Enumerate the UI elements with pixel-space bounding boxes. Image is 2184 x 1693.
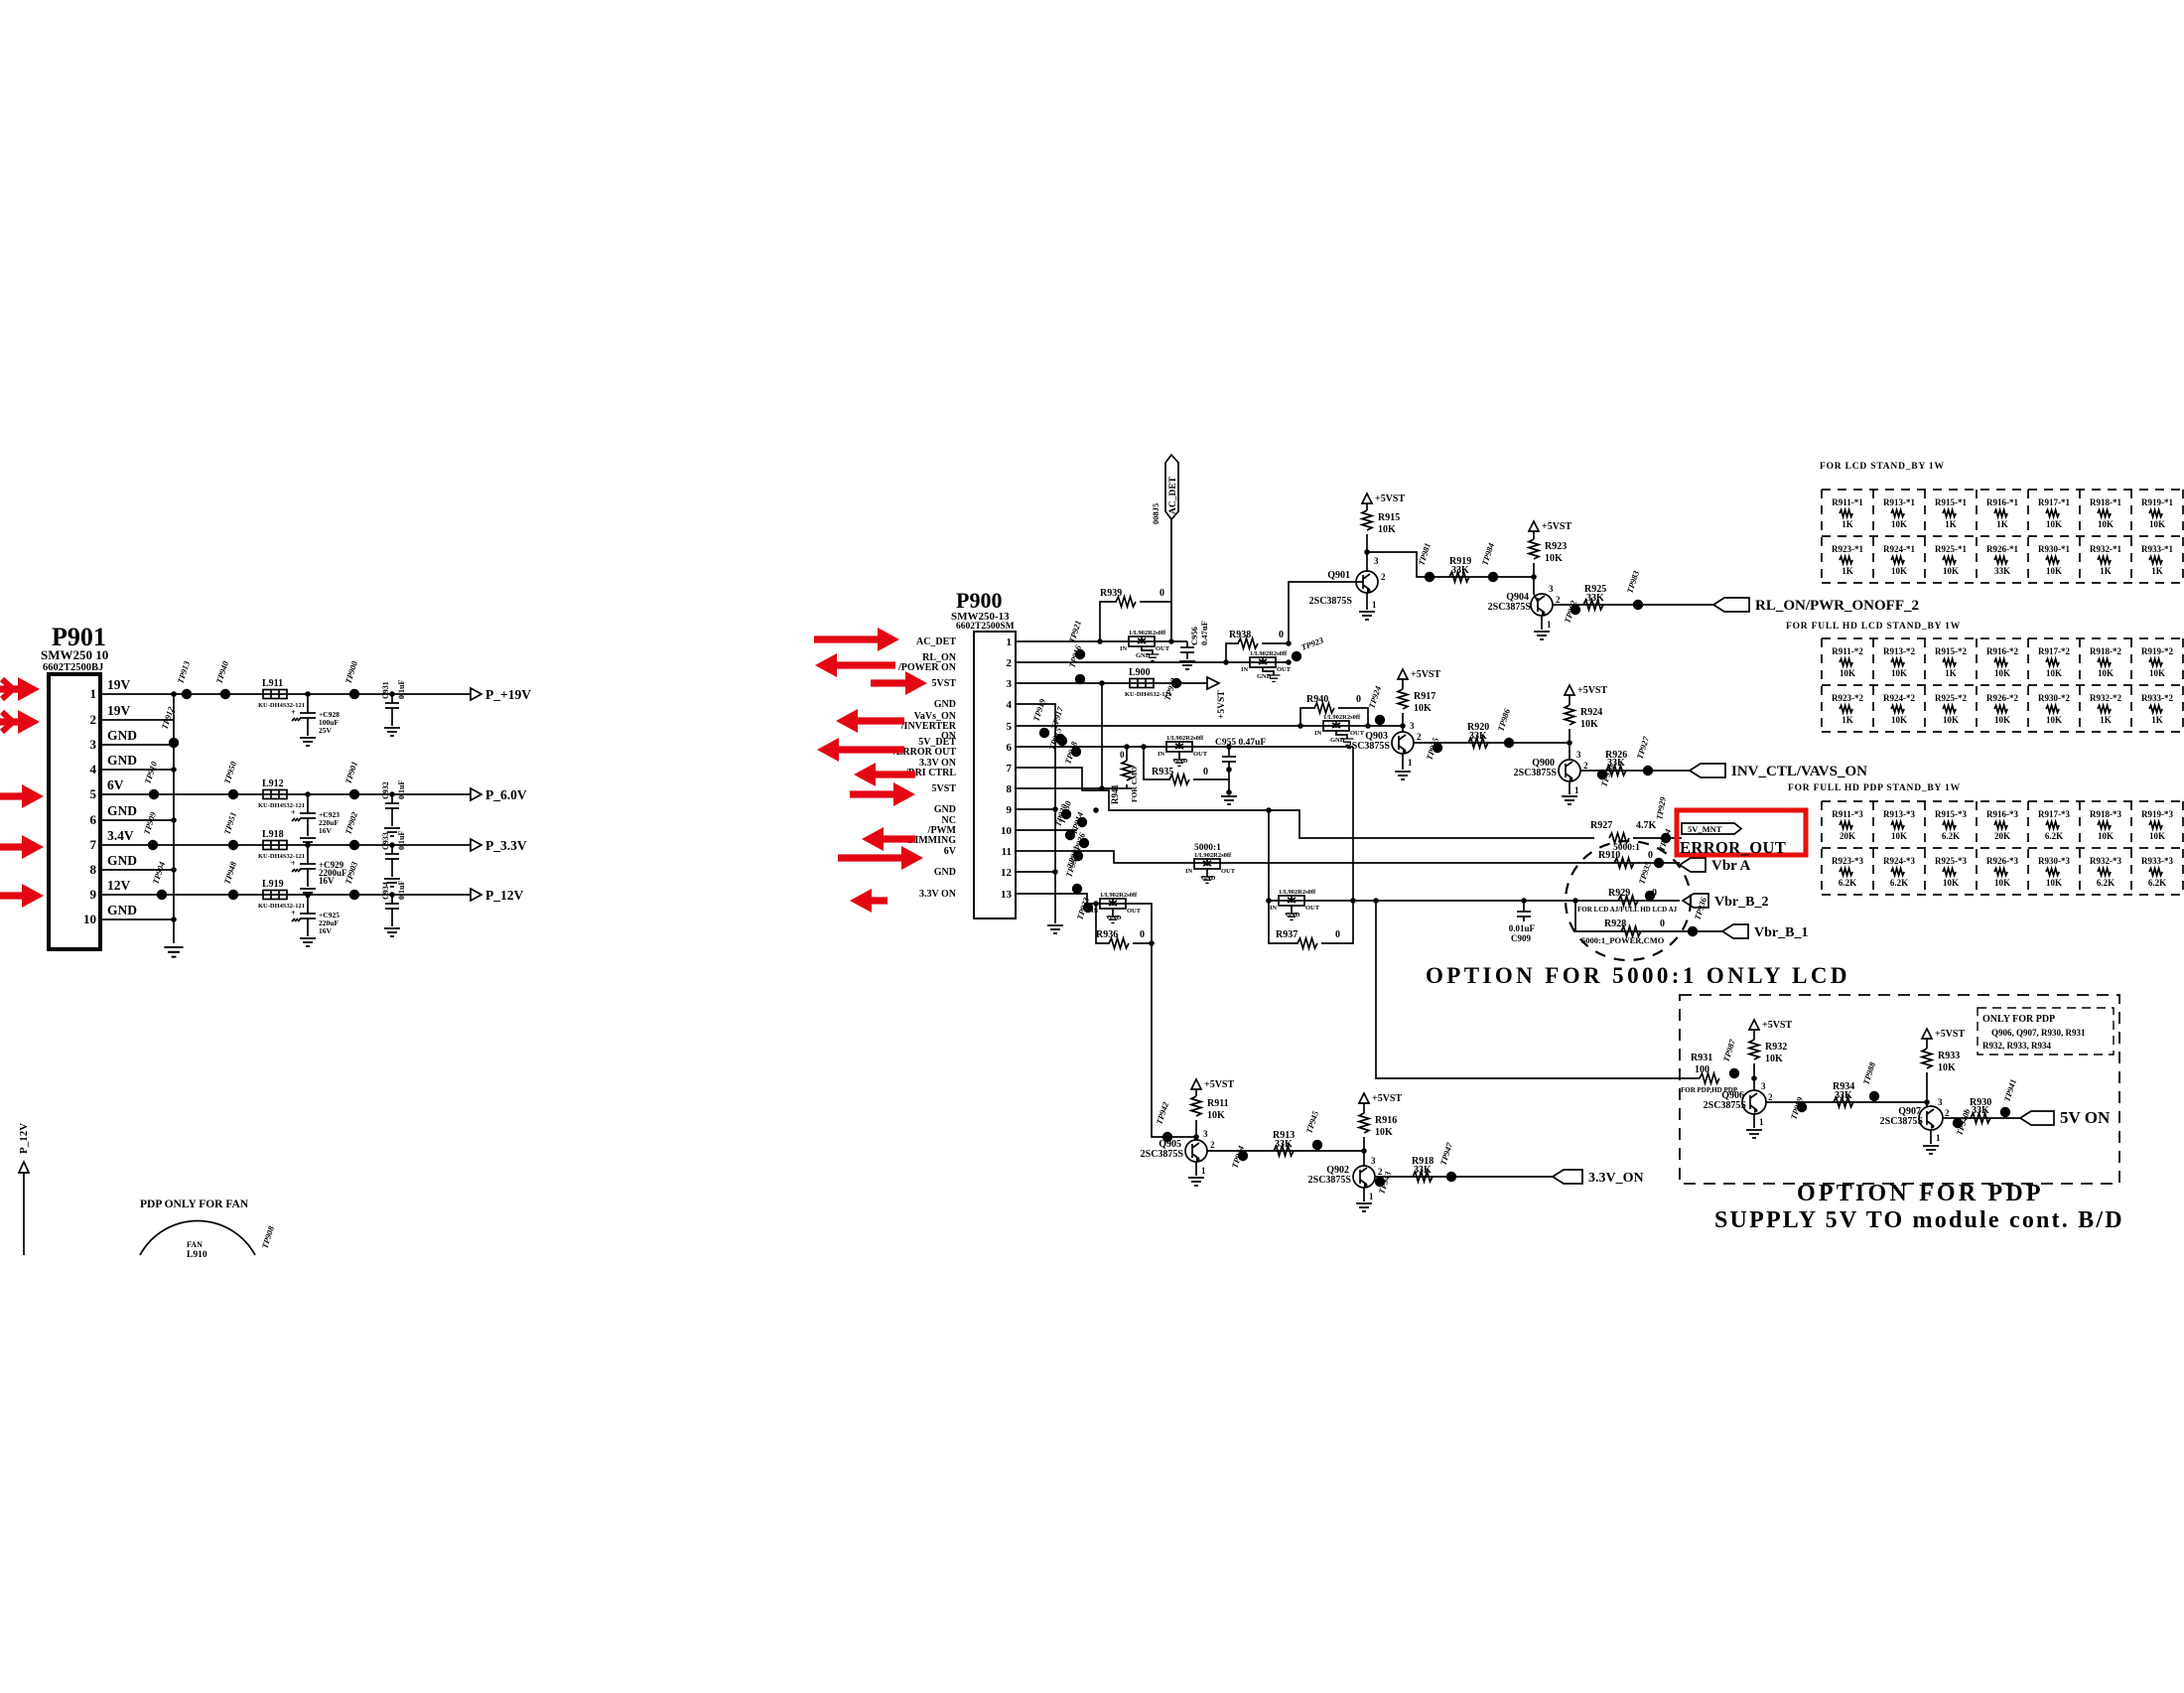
svg-text:KU-DH4S32-121: KU-DH4S32-121: [258, 802, 305, 809]
test point TP910: [142, 760, 159, 799]
svg-text:R918-*1: R918-*1: [2090, 497, 2121, 507]
svg-text:R932, R933, R934: R932, R933, R934: [1982, 1041, 2051, 1051]
dashed option box OPTION FOR PDP: [1680, 995, 2119, 1184]
junction Q907 base node: [1924, 1099, 1930, 1105]
test point TP987: [1720, 1038, 1739, 1078]
red annotation arrow into P901 pin 5: [0, 784, 44, 808]
junction: [1093, 901, 1099, 907]
svg-text:R932: R932: [1765, 1042, 1787, 1053]
svg-text:2SC3875S: 2SC3875S: [1309, 596, 1353, 607]
svg-text:/POWER ON: /POWER ON: [897, 662, 957, 673]
ground below Q903 emitter: [1395, 772, 1411, 779]
resistor R941 0 ohm: [1110, 747, 1139, 804]
resistor R915-*3 6.2K: [1935, 809, 1967, 841]
test point TP948: [221, 860, 238, 900]
svg-text:R924-*3: R924-*3: [1883, 856, 1915, 866]
svg-text:0.1uF: 0.1uF: [397, 881, 406, 900]
svg-text:PDP ONLY FOR FAN: PDP ONLY FOR FAN: [140, 1199, 249, 1210]
resistor R925-*3 10K: [1935, 856, 1967, 888]
wire P900 pin2 RL_ON: [1032, 661, 1289, 663]
svg-text:1K: 1K: [1945, 519, 1957, 529]
P900 pin 3: [1007, 678, 1033, 690]
svg-text:R929: R929: [1608, 888, 1630, 899]
red chevron behind pin2 arrow: [2, 712, 13, 732]
junction: [389, 842, 395, 848]
svg-text:R919-*2: R919-*2: [2141, 646, 2173, 656]
test point TP922: [1161, 676, 1181, 702]
junction: [1099, 785, 1105, 791]
P900 pin 6 net label: [892, 737, 956, 758]
svg-text:1: 1: [1369, 1192, 1374, 1201]
resistor R917 10K: [1398, 679, 1435, 732]
wire to +C928: [307, 694, 309, 713]
wire P901 pin8 to ground bus: [117, 869, 174, 871]
svg-text:C909: C909: [1511, 933, 1531, 943]
svg-text:GND: GND: [934, 699, 956, 710]
svg-text:OPTION FOR PDP: OPTION FOR PDP: [1797, 1181, 2044, 1206]
output triangle P_3.3V: [471, 839, 481, 851]
resistor R926-*2 10K: [1986, 693, 2018, 725]
svg-text:FOR LCD STAND_BY 1W: FOR LCD STAND_BY 1W: [1820, 462, 1945, 472]
svg-text:R933-*1: R933-*1: [2141, 544, 2173, 554]
svg-text:+5VST: +5VST: [1762, 1020, 1792, 1031]
wire P900 pin6 5V_DET: [1032, 746, 1353, 748]
ground below +C923: [300, 838, 316, 846]
output triangle P_12V: [471, 889, 481, 901]
wire pin10 stub: [1032, 829, 1077, 831]
resistor R933-*2 1K: [2141, 693, 2173, 725]
svg-text:KU-DH4S32-121: KU-DH4S32-121: [258, 903, 305, 910]
capacitor C931: [381, 680, 406, 708]
svg-text:10K: 10K: [2098, 668, 2114, 678]
output triangle P_6.0V: [471, 788, 481, 800]
svg-text:R925-*1: R925-*1: [1935, 544, 1967, 554]
svg-text:GND: GND: [107, 753, 137, 768]
svg-text:2: 2: [1007, 657, 1013, 669]
wire into 5V_MNT: [1633, 837, 1682, 839]
ground below +C928: [300, 738, 316, 746]
svg-text:2SC3875S: 2SC3875S: [1488, 602, 1532, 613]
red annotation arrow into P901 pin 2: [0, 710, 40, 734]
svg-text:25V: 25V: [319, 726, 333, 735]
junction: [1052, 869, 1058, 875]
svg-text:6V: 6V: [944, 846, 957, 857]
junction: [171, 867, 177, 873]
svg-text:3.3V_ON: 3.3V_ON: [1588, 1171, 1644, 1186]
test point TP932: [1063, 853, 1082, 894]
P900 pin 8 net label: [932, 783, 957, 794]
P900 pin 1: [1007, 636, 1033, 648]
svg-text:5V ON: 5V ON: [2060, 1108, 2111, 1127]
svg-text:GND: GND: [107, 728, 137, 743]
net tag INV_CTL/VAVS_ON: [1690, 764, 1867, 779]
test point TP925: [1424, 736, 1442, 762]
junction: [1149, 940, 1155, 946]
wire: [391, 909, 393, 926]
test point TP918: [1062, 740, 1081, 766]
wire Q900 to INV_CTL tag: [1584, 770, 1690, 772]
svg-text:10K: 10K: [2046, 519, 2062, 529]
resistor R918-*3 10K: [2090, 809, 2121, 841]
P900 pin 12 net label: [934, 867, 956, 878]
svg-text:10K: 10K: [2046, 715, 2062, 725]
inductor L912: [258, 778, 305, 809]
resistor R918 33K: [1412, 1156, 1433, 1182]
resistor R930-*3 10K: [2038, 856, 2070, 888]
P900 pin 5: [1007, 721, 1033, 733]
wire P901 pin2 19V: [117, 719, 174, 721]
svg-text:8: 8: [1007, 783, 1013, 795]
connector P901 title: [41, 623, 108, 673]
P900 pin 2: [1007, 657, 1033, 669]
svg-text:R933: R933: [1938, 1051, 1960, 1061]
+5VST power for R917: [1398, 669, 1440, 680]
P900 pin 10: [1001, 825, 1032, 837]
svg-text:6.2K: 6.2K: [2045, 831, 2063, 841]
svg-text:+: +: [291, 859, 296, 868]
svg-text:P_12V: P_12V: [18, 1123, 30, 1154]
test point TP904: [150, 861, 167, 901]
resistor R916-*1 1K: [1986, 497, 2018, 529]
ground of IC D904 detector: [1173, 760, 1186, 766]
red annotation arrow PWM DIMMING out: [862, 827, 915, 851]
svg-text:+: +: [291, 808, 296, 817]
P900 pin 11 net label: [944, 846, 957, 857]
svg-text:7: 7: [1007, 763, 1013, 775]
svg-text:KU-DH4S32-121: KU-DH4S32-121: [258, 853, 305, 860]
wire P900 pin11 to Vbr_A: [1032, 851, 1640, 863]
svg-text:OUT: OUT: [1350, 730, 1365, 737]
junction: [1124, 744, 1130, 750]
svg-text:10K: 10K: [1943, 715, 1959, 725]
svg-text:R915-*1: R915-*1: [1935, 497, 1967, 507]
svg-text:2SC3875S: 2SC3875S: [1880, 1116, 1924, 1127]
junction: [1141, 744, 1147, 750]
resistor R917-*2 10K: [2038, 646, 2070, 678]
svg-text:3: 3: [90, 737, 97, 752]
electrolytic capacitor C925: [291, 909, 340, 935]
svg-text:L918: L918: [262, 829, 284, 840]
wire Q904 to RL_ON tag: [1553, 604, 1713, 606]
svg-text:R925-*2: R925-*2: [1935, 693, 1967, 703]
svg-text:+5VST: +5VST: [1577, 685, 1607, 696]
svg-text:10K: 10K: [1891, 831, 1907, 841]
svg-text:GND: GND: [107, 903, 137, 917]
svg-text:GND: GND: [107, 853, 137, 868]
svg-text:4.7K: 4.7K: [1636, 820, 1657, 831]
svg-text:10K: 10K: [1545, 553, 1563, 564]
svg-text:FOR CMO: FOR CMO: [1130, 767, 1139, 802]
svg-text:Vbr A: Vbr A: [1711, 858, 1750, 874]
red annotation arrow 5VST pin8 in: [850, 782, 915, 806]
test point TP914: [1068, 811, 1087, 836]
wire P900 pin1 AC_DET: [1032, 640, 1187, 642]
wire Q906 to R934: [1770, 1101, 1927, 1103]
svg-text:SMW250 10: SMW250 10: [41, 647, 108, 662]
svg-text:3.4V: 3.4V: [107, 828, 134, 843]
electrolytic capacitor C928: [291, 708, 340, 735]
buffer symbol to +5VST: [1207, 677, 1227, 719]
junction Q901 collector node: [1364, 549, 1370, 555]
resistor R935 0 ohm: [1144, 747, 1229, 784]
ground below C931: [384, 728, 400, 736]
voltage detector IC D903 detector: [1314, 714, 1365, 745]
wire P901 pin4 to ground bus: [117, 769, 174, 771]
junction: [1226, 789, 1232, 795]
test point TP902: [342, 810, 359, 850]
svg-text:0: 0: [1279, 630, 1284, 640]
electrolytic capacitor C929: [291, 859, 347, 886]
svg-text:1K: 1K: [2100, 715, 2112, 725]
svg-text:R939: R939: [1100, 588, 1122, 599]
junction: [1365, 723, 1371, 729]
resistor R932 10K: [1749, 1030, 1787, 1091]
svg-text:P_12V: P_12V: [485, 888, 523, 903]
P901 pin 2 (19V): [90, 703, 131, 727]
svg-text:R913-*2: R913-*2: [1883, 646, 1915, 656]
svg-text:2: 2: [1417, 732, 1422, 742]
test point TP930: [1056, 799, 1075, 840]
svg-text:2SC3875S: 2SC3875S: [1514, 768, 1558, 778]
resistor R920 33K: [1467, 722, 1489, 748]
svg-text:R933-*3: R933-*3: [2141, 856, 2173, 866]
test point TP901: [342, 761, 359, 800]
svg-text:1/L902R2s0ff: 1/L902R2s0ff: [1279, 889, 1316, 896]
ground below Q901 emitter: [1359, 612, 1375, 620]
svg-text:R919-*1: R919-*1: [2141, 497, 2173, 507]
svg-text:6V: 6V: [107, 777, 124, 792]
resistor R940 0 ohm: [1300, 694, 1368, 726]
svg-text:33K: 33K: [1972, 1105, 1989, 1116]
svg-text:GND: GND: [1107, 915, 1122, 921]
ground below +C925: [300, 938, 316, 946]
test point TP986: [1495, 707, 1514, 748]
junction: [305, 691, 311, 697]
svg-text:10K: 10K: [1840, 668, 1855, 678]
output triangle P_+19V: [471, 688, 481, 700]
svg-text:1K: 1K: [1996, 519, 2008, 529]
resistor R930 33K: [1970, 1097, 1991, 1123]
svg-text:GND: GND: [1286, 912, 1300, 918]
P900 pin 4: [1007, 699, 1033, 711]
junction: [1099, 680, 1105, 686]
test point TP903: [342, 860, 359, 900]
wire: [391, 708, 393, 726]
net tag 5V_ON: [2020, 1108, 2111, 1127]
+5VST power for R932: [1749, 1020, 1792, 1031]
svg-text:0: 0: [1120, 750, 1125, 760]
P900 pin 8: [1007, 783, 1033, 795]
resistor R924-*1 10K: [1883, 544, 1915, 576]
resistor R925-*2 10K: [1935, 693, 1967, 725]
svg-text:6.2K: 6.2K: [2148, 878, 2166, 888]
svg-text:1K: 1K: [1842, 715, 1853, 725]
wire Vbr_B_2 line: [1269, 900, 1680, 902]
junction: [1266, 898, 1272, 904]
svg-text:4: 4: [90, 762, 97, 776]
junction: [305, 842, 311, 848]
svg-text:1: 1: [1372, 600, 1377, 610]
resistor R916 10K: [1359, 1103, 1397, 1166]
P900 pin 7 net label: [904, 758, 957, 778]
svg-text:R935: R935: [1152, 767, 1173, 777]
svg-text:P900: P900: [956, 588, 1002, 613]
wire AC_DET vertical: [1170, 519, 1172, 641]
resistor R932-*2 1K: [2090, 693, 2121, 725]
svg-text:R913-*3: R913-*3: [1883, 809, 1915, 819]
svg-text:1: 1: [1408, 758, 1413, 768]
resistor R916-*3 20K: [1986, 809, 2018, 841]
svg-text:1: 1: [1007, 636, 1013, 648]
resistor R933 10K: [1922, 1039, 1960, 1106]
P900 pin 12: [1001, 867, 1032, 879]
ground below C933: [384, 879, 400, 887]
svg-text:R928: R928: [1604, 918, 1626, 929]
svg-text:2: 2: [1556, 595, 1561, 605]
svg-text:R916: R916: [1375, 1115, 1397, 1126]
svg-text:10K: 10K: [1207, 1110, 1225, 1121]
svg-text:R940: R940: [1306, 694, 1328, 705]
svg-text:+5VST: +5VST: [1375, 494, 1405, 504]
net tag RL_ON/PWR_ONOFF_2: [1713, 598, 1919, 614]
+5VST power for R916: [1359, 1093, 1402, 1104]
resistor R915-*1 1K: [1935, 497, 1967, 529]
test point TP950: [221, 760, 238, 799]
test point TP933: [1074, 896, 1093, 921]
resistor R911-*3 20K: [1832, 809, 1863, 841]
svg-text:IN: IN: [1185, 868, 1193, 875]
svg-text:IN: IN: [1270, 905, 1278, 912]
capacitor C909 0.01uF: [1509, 901, 1536, 943]
resistor R919 33K: [1449, 556, 1471, 582]
svg-text:1: 1: [1547, 620, 1552, 630]
junction Q900 base node: [1567, 740, 1572, 746]
resistor R926-*1 33K: [1986, 544, 2018, 576]
svg-text:AC_DET: AC_DET: [1168, 476, 1178, 514]
svg-text:IN: IN: [1091, 908, 1099, 915]
svg-text:33K: 33K: [1607, 758, 1625, 769]
junction: [1052, 806, 1058, 812]
test point TP935: [1636, 860, 1655, 901]
red highlight box around ERROR_OUT: [1677, 810, 1806, 855]
svg-text:3.3V ON: 3.3V ON: [919, 889, 957, 900]
svg-text:2SC3875S: 2SC3875S: [1141, 1149, 1184, 1160]
P901 pin 3 (GND): [90, 728, 138, 752]
resistor R932-*3 6.2K: [2090, 856, 2121, 888]
resistor R923-*3 6.2K: [1832, 856, 1863, 888]
test point TP981: [1416, 542, 1434, 583]
junction Q904 base node: [1531, 574, 1537, 580]
svg-text:R926-*1: R926-*1: [1986, 544, 2018, 554]
resistor R910 0 ohm: [1598, 850, 1653, 868]
svg-text:R924-*1: R924-*1: [1883, 544, 1915, 554]
test point TP919: [1030, 697, 1049, 738]
junction: [171, 767, 177, 773]
resistor R937 0 ohm: [1269, 901, 1353, 948]
svg-text:10K: 10K: [2046, 566, 2062, 576]
svg-text:GND: GND: [1257, 673, 1272, 680]
svg-text:P_+19V: P_+19V: [485, 687, 531, 702]
svg-text:11: 11: [1002, 846, 1012, 858]
P900 pin 3 net label: [932, 678, 957, 689]
svg-text:R933-*2: R933-*2: [2141, 693, 2173, 703]
junction: [1521, 898, 1527, 904]
transistor Q906 2SC3875S: [1704, 1081, 1773, 1128]
svg-text:10K: 10K: [1891, 668, 1907, 678]
svg-text:ONLY FOR PDP: ONLY FOR PDP: [1982, 1014, 2055, 1025]
svg-text:6: 6: [90, 812, 97, 827]
resistor R915 10K: [1362, 503, 1400, 552]
P900 pin 1 net label: [916, 636, 956, 647]
svg-text:GND: GND: [107, 803, 137, 818]
+5VST power for R924: [1565, 685, 1607, 696]
svg-text:+5VST: +5VST: [1411, 669, 1440, 680]
test point TP942: [1154, 1100, 1172, 1142]
svg-text:1: 1: [1201, 1166, 1206, 1176]
svg-text:+5VST: +5VST: [1372, 1093, 1402, 1104]
svg-text:GND: GND: [934, 867, 956, 878]
svg-text:3: 3: [1007, 678, 1013, 690]
svg-text:10K: 10K: [1938, 1062, 1956, 1073]
P901 pin 10 (GND): [83, 903, 137, 926]
inductor L911: [258, 678, 305, 709]
svg-text:6.2K: 6.2K: [1942, 831, 1960, 841]
wire rail P_6.0V: [117, 793, 471, 795]
resistor R923-*2 1K: [1832, 693, 1863, 725]
resistor R936 0 ohm: [1096, 904, 1152, 948]
svg-text:0: 0: [1648, 850, 1653, 861]
svg-text:IN: IN: [1158, 751, 1165, 758]
svg-text:1/L902R2s0ff: 1/L902R2s0ff: [1100, 892, 1138, 899]
red annotation arrow 3.3V ON out: [850, 889, 887, 913]
P900 pin 9 net label: [934, 804, 956, 815]
svg-text:1/L902R2s0ff: 1/L902R2s0ff: [1194, 852, 1232, 859]
svg-text:IN: IN: [1314, 730, 1322, 737]
junction Q906 collector node: [1751, 1075, 1757, 1081]
svg-text:33K: 33K: [1451, 565, 1469, 576]
wire P901 pin10 to ground bus: [117, 918, 174, 920]
svg-text:R930-*2: R930-*2: [2038, 693, 2070, 703]
svg-text:10: 10: [83, 912, 96, 926]
test point TP951: [221, 811, 238, 851]
capacitor C933: [381, 831, 406, 859]
wire P900 pin13 3.3V ON to Q905: [1032, 894, 1196, 1137]
svg-text:R917: R917: [1414, 691, 1435, 702]
test point TP912: [159, 705, 179, 748]
svg-text:10K: 10K: [1943, 566, 1959, 576]
junction: [171, 691, 177, 697]
red annotation arrow VaVs_ON out: [836, 709, 904, 733]
ground below C956: [1179, 661, 1195, 669]
svg-text:C955 0.47uF: C955 0.47uF: [1215, 738, 1266, 748]
spare: [1151, 924, 1153, 926]
svg-text:10K: 10K: [1891, 566, 1907, 576]
connector P900 title: [951, 588, 1015, 632]
svg-text:R924: R924: [1580, 707, 1602, 718]
test point TP924: [1366, 685, 1385, 726]
svg-text:R915-*3: R915-*3: [1935, 809, 1967, 819]
svg-text:10K: 10K: [1891, 715, 1907, 725]
svg-text:10K: 10K: [1994, 715, 2010, 725]
svg-text:R910: R910: [1598, 850, 1620, 861]
svg-text:AC_DET: AC_DET: [916, 636, 956, 647]
wire: [307, 718, 309, 736]
option resistor table FOR FULL HD PDP STAND_BY 1W: [1822, 801, 2184, 895]
test point TP945: [1303, 1109, 1322, 1150]
junction: [1093, 807, 1099, 813]
svg-text:R923-*1: R923-*1: [1832, 544, 1863, 554]
ground of IC D903 detector: [1341, 739, 1354, 745]
